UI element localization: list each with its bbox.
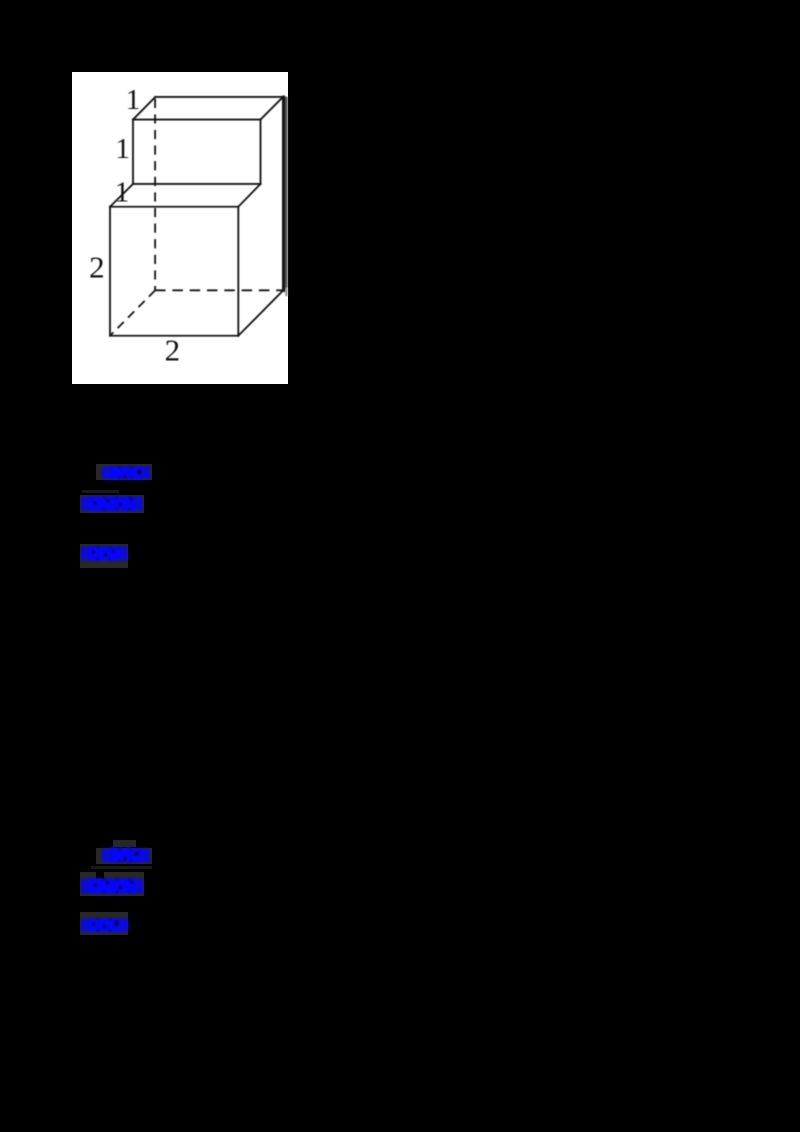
answer label 4: blue text (blurred) xyxy=(100,846,151,864)
answer label 1: blue text (blurred) xyxy=(100,464,151,481)
wire: slab top left edge I-K xyxy=(133,96,155,119)
answer label 2: gray highlight box xyxy=(80,495,144,513)
answer label 6: gray highlight box xyxy=(80,912,128,936)
scan artifact: thick gray vertical bar at right edge xyxy=(285,96,288,287)
wire: cube front left edge A-C xyxy=(109,206,111,335)
faint strip above answer label 2 xyxy=(82,490,119,493)
answer label 5: gray highlight box with notch xyxy=(80,872,145,896)
answer label 6: blue text (blurred) xyxy=(79,916,130,934)
answer label 2: blue text (blurred) xyxy=(79,494,144,513)
wire: slab front right edge J-H xyxy=(260,119,262,183)
wire: hidden back bottom edge E-F (dashed) xyxy=(155,289,283,291)
wire: hidden back vertical edge K-E (dashed) xyxy=(154,98,156,290)
wire: back right vertical edge L-F (thick) xyxy=(282,96,285,289)
wire: tread left edge C-G xyxy=(110,183,133,206)
svg-text:2: 2 xyxy=(165,332,181,367)
answer label 3: blue text (blurred) xyxy=(79,544,129,562)
wire: cube bottom right edge B-F xyxy=(238,290,283,335)
answer label 4: gray highlight box xyxy=(96,848,152,864)
svg-text:2: 2 xyxy=(89,249,105,284)
wire: cube front right edge B-D xyxy=(237,206,239,335)
svg-text:1: 1 xyxy=(115,132,129,164)
answer label 1: gray highlight box xyxy=(96,464,152,480)
wire: slab front left edge I-G xyxy=(132,119,134,183)
answer label 5: blue text (blurred) xyxy=(79,876,144,895)
svg-text:1: 1 xyxy=(126,83,141,115)
svg-text:1: 1 xyxy=(115,176,130,208)
stray gray blob above answer label 4 xyxy=(113,840,137,847)
wire: slab top right edge J-L xyxy=(261,96,284,119)
wire: cube bottom front edge A-B xyxy=(110,334,238,336)
answer label 3: gray highlight box xyxy=(80,544,128,568)
wire: hidden bottom left edge E-A (dashed) xyxy=(110,290,155,335)
faint strip below answer label 4 xyxy=(91,866,152,869)
wire: slab top front edge I-J xyxy=(133,118,261,120)
figure: white panel with 3D step solid xyxy=(72,72,288,385)
wire: cube top front edge C-D xyxy=(110,205,238,207)
wire: step back edge G-H xyxy=(133,182,261,184)
wire: tread right edge D-H xyxy=(238,183,260,206)
wire: slab top back edge K-L xyxy=(155,95,283,97)
